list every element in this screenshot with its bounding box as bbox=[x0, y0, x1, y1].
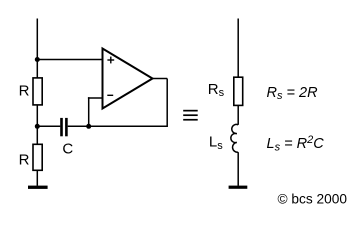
svg-text:R: R bbox=[19, 152, 30, 169]
svg-text:C: C bbox=[62, 140, 73, 157]
wire: R2 bottom to ground bbox=[36, 170, 38, 186]
wire: right circuit top vertical bbox=[237, 19, 239, 78]
wire: capacitor to feedback corner (through node C) bbox=[68, 125, 168, 127]
node C (junction dot, - input node) bbox=[86, 124, 91, 129]
inductor Ls coil bbox=[231, 124, 238, 152]
ground (left) bbox=[28, 186, 48, 189]
ground (right) bbox=[229, 186, 248, 189]
resistor R2 body bbox=[33, 144, 42, 170]
op-amp - input sign bbox=[107, 94, 113, 96]
wire: node B to capacitor bbox=[37, 125, 60, 127]
node B (junction dot, capacitor node) bbox=[35, 124, 40, 129]
resistor R1 body bbox=[33, 78, 42, 105]
wire: node C up to - input level bbox=[88, 97, 90, 126]
svg-text:R: R bbox=[19, 82, 30, 99]
wire: left input vertical bbox=[36, 19, 38, 79]
wire: to op-amp - input bbox=[88, 97, 103, 99]
wire: R1 bottom to node B bbox=[36, 105, 38, 144]
svg-text:Ls = R2C: Ls = R2C bbox=[267, 134, 325, 153]
equivalence symbol bbox=[183, 110, 198, 112]
resistor Rs body bbox=[234, 77, 243, 105]
svg-text:Rs = 2R: Rs = 2R bbox=[267, 85, 319, 102]
svg-text:© bcs 2000: © bcs 2000 bbox=[278, 192, 347, 207]
capacitor C plate 1 bbox=[60, 118, 63, 136]
op-amp U1 triangle bbox=[103, 49, 153, 109]
wire: feedback right vertical bbox=[166, 79, 168, 128]
wire: op-amp output bbox=[153, 78, 168, 80]
wire: Ls to ground bbox=[237, 152, 239, 186]
capacitor C plate 2 bbox=[65, 118, 68, 136]
node A (junction dot, + input node) bbox=[35, 57, 40, 62]
wire: node A to op-amp + input bbox=[37, 59, 102, 61]
op-amp + input sign bbox=[107, 59, 114, 61]
wire: Rs to Ls bbox=[237, 105, 239, 124]
svg-text:Ls: Ls bbox=[209, 134, 223, 152]
svg-text:Rs: Rs bbox=[208, 81, 225, 99]
